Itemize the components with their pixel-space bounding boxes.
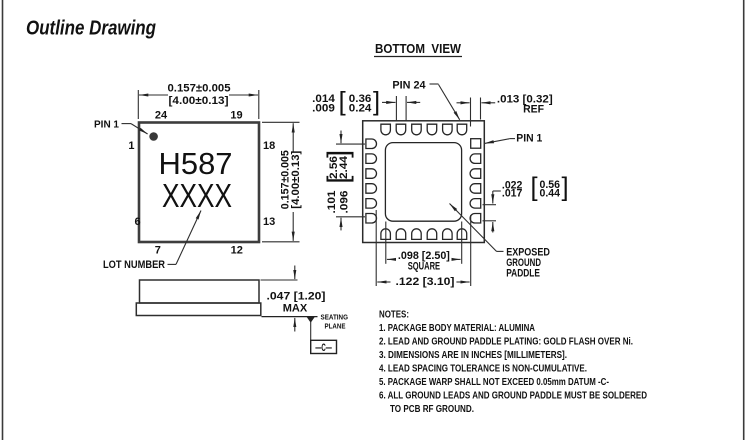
dimension: paddle .098 [2.50] SQUARE bbox=[386, 222, 462, 273]
svg-text:6. ALL GROUND LEADS AND GROUND: 6. ALL GROUND LEADS AND GROUND PADDLE MU… bbox=[379, 391, 647, 402]
svg-text:SQUARE: SQUARE bbox=[408, 261, 440, 273]
dimension: lead tip span .122 [3.10] bbox=[376, 210, 471, 288]
side view: package body bbox=[140, 280, 260, 303]
svg-text:18: 18 bbox=[263, 140, 275, 152]
seating plane line bbox=[262, 316, 318, 318]
svg-text:REF: REF bbox=[523, 103, 544, 115]
svg-text:[: [ bbox=[339, 88, 346, 116]
svg-text:5. PACKAGE WARP SHALL NOT EXCE: 5. PACKAGE WARP SHALL NOT EXCEED 0.05mm … bbox=[379, 377, 609, 388]
leads left column (pins 1..6 mirrored) bbox=[366, 139, 377, 223]
page border right bbox=[743, 0, 745, 440]
side view: base flange bbox=[136, 303, 260, 316]
pin 1 index dot bbox=[149, 132, 158, 141]
svg-text:XXXX: XXXX bbox=[162, 178, 232, 215]
SEATING PLANE label bbox=[321, 313, 349, 331]
svg-text:13: 13 bbox=[263, 216, 275, 228]
datum label -C- bbox=[311, 340, 337, 354]
PIN 1 callout with leader (bottom view) bbox=[485, 133, 543, 145]
top view: package body outline bbox=[139, 123, 259, 243]
svg-text:MAX: MAX bbox=[283, 302, 308, 314]
svg-text:NOTES:: NOTES: bbox=[379, 309, 409, 320]
leads bottom row (pins 7..12) bbox=[381, 229, 467, 240]
svg-text:PIN 24: PIN 24 bbox=[392, 79, 426, 91]
svg-text:[: [ bbox=[531, 173, 538, 201]
leads top row (pins 24..19) bbox=[381, 124, 467, 135]
heading: BOTTOM VIEW bbox=[374, 41, 462, 57]
svg-text:SEATING: SEATING bbox=[321, 313, 349, 322]
svg-text:3. DIMENSIONS ARE IN INCHES [M: 3. DIMENSIONS ARE IN INCHES [MILLIMETERS… bbox=[379, 350, 567, 361]
svg-text:Outline Drawing: Outline Drawing bbox=[26, 17, 156, 40]
dimension: lead pitch .022/.017 [0.56/0.44] bbox=[483, 173, 569, 232]
svg-text:6: 6 bbox=[135, 216, 141, 228]
dimension: right height 0.157±0.005 [4.00±0.13] rotated bbox=[262, 122, 302, 242]
svg-text:]: ] bbox=[562, 173, 569, 201]
seating plane datum triangle bbox=[307, 317, 315, 340]
svg-text:4. LEAD SPACING TOLERANCE IS N: 4. LEAD SPACING TOLERANCE IS NON-CUMULAT… bbox=[379, 364, 587, 375]
svg-text:.101: .101 bbox=[326, 191, 338, 214]
svg-text:1. PACKAGE BODY MATERIAL: ALUM: 1. PACKAGE BODY MATERIAL: ALUMINA bbox=[379, 323, 535, 334]
svg-text:24: 24 bbox=[155, 109, 168, 121]
svg-text:]: ] bbox=[373, 88, 380, 116]
bottom view: package body outline bbox=[363, 121, 485, 243]
PIN 24 callout with leader bbox=[392, 79, 459, 120]
svg-text:PADDLE: PADDLE bbox=[506, 268, 540, 280]
exposed ground paddle bbox=[385, 143, 461, 222]
svg-text:—C—: —C— bbox=[315, 342, 332, 354]
svg-text:.096: .096 bbox=[338, 191, 350, 214]
EXPOSED GROUND PADDLE callout with leader bbox=[450, 204, 550, 280]
svg-text:[4.00±0.13]: [4.00±0.13] bbox=[290, 150, 302, 208]
svg-text:12: 12 bbox=[231, 245, 243, 257]
svg-text:19: 19 bbox=[230, 109, 242, 121]
svg-text:H587: H587 bbox=[159, 147, 233, 181]
leads right column bbox=[470, 154, 481, 223]
svg-text:2. LEAD AND GROUND PADDLE PLAT: 2. LEAD AND GROUND PADDLE PLATING: GOLD … bbox=[379, 337, 633, 348]
svg-text:TO PCB RF GROUND.: TO PCB RF GROUND. bbox=[390, 404, 474, 415]
svg-text:PIN 1: PIN 1 bbox=[94, 120, 119, 131]
svg-text:LOT NUMBER: LOT NUMBER bbox=[103, 259, 165, 271]
svg-text:[4.00±0.13]: [4.00±0.13] bbox=[169, 95, 229, 107]
svg-text:1: 1 bbox=[128, 140, 134, 152]
dimension: .013 [0.32] REF bbox=[457, 94, 554, 127]
svg-text:0.24: 0.24 bbox=[349, 103, 373, 115]
svg-text:.047 [1.20]: .047 [1.20] bbox=[267, 291, 326, 303]
LOT NUMBER callout with leader bbox=[103, 211, 201, 272]
page border left bbox=[2, 0, 4, 440]
svg-text:0.44: 0.44 bbox=[540, 188, 561, 200]
svg-text:.122 [3.10]: .122 [3.10] bbox=[396, 276, 455, 288]
svg-text:7: 7 bbox=[155, 245, 161, 257]
svg-text:BOTTOM VIEW: BOTTOM VIEW bbox=[375, 41, 462, 56]
dimension: lead row span .101/.096 [2.56/2.44] rotated bbox=[323, 131, 365, 231]
lead pin 1 square pad bbox=[471, 139, 481, 149]
dimension: top width 0.157±0.005 [4.00±0.13] bbox=[138, 83, 258, 119]
svg-text:PIN 1: PIN 1 bbox=[516, 133, 542, 145]
PIN 1 callout with leader (top view) bbox=[94, 120, 148, 134]
notes bbox=[379, 309, 647, 415]
dimension: height .047 [1.20] MAX bbox=[261, 266, 326, 332]
svg-text:PLANE: PLANE bbox=[325, 321, 346, 330]
svg-text:.017: .017 bbox=[502, 188, 523, 200]
svg-text:]: ] bbox=[323, 150, 355, 158]
dimension: lead width .014/.009 [0.36/0.24] bbox=[312, 88, 420, 121]
svg-text:0.157±0.005: 0.157±0.005 bbox=[168, 83, 231, 95]
svg-text:.009: .009 bbox=[312, 103, 335, 115]
